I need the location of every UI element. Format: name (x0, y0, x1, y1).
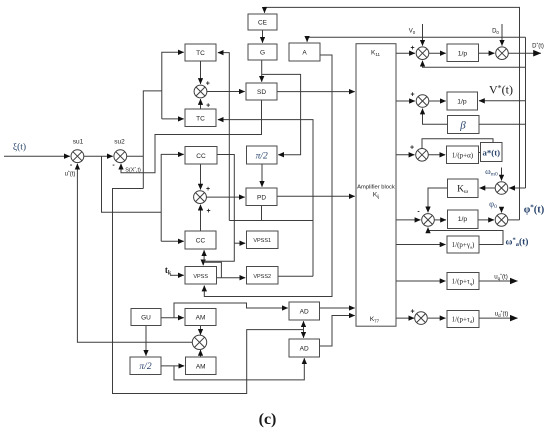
svg-text:ξ(t): ξ(t) (13, 142, 26, 153)
svg-text:S(X*,t): S(X*,t) (125, 165, 141, 173)
svg-text:+: + (410, 92, 414, 99)
svg-text:+: + (206, 208, 210, 215)
svg-text:AM: AM (196, 315, 206, 322)
svg-text:AD: AD (300, 346, 309, 353)
svg-text:su1: su1 (73, 139, 84, 146)
svg-text:AD: AD (300, 309, 309, 316)
svg-text:+: + (206, 186, 210, 193)
svg-text:TC: TC (196, 50, 205, 57)
svg-text:uq*(t): uq*(t) (494, 273, 508, 281)
svg-text:D0: D0 (492, 29, 499, 35)
svg-text:π/2: π/2 (139, 362, 151, 372)
svg-text:CC: CC (196, 238, 206, 245)
svg-text:CC: CC (196, 153, 206, 160)
svg-text:+: + (206, 103, 210, 110)
svg-text:φ*(t): φ*(t) (524, 204, 545, 216)
svg-text:β: β (459, 120, 466, 132)
svg-text:+: + (410, 145, 414, 152)
svg-text:TC: TC (196, 116, 205, 123)
svg-text:ud*(t): ud*(t) (495, 310, 509, 318)
svg-text:V0: V0 (409, 29, 416, 35)
svg-text:GU: GU (141, 315, 151, 322)
svg-text:(c): (c) (259, 411, 277, 428)
svg-text:VPSS2: VPSS2 (253, 274, 271, 280)
svg-text:u*(t): u*(t) (65, 170, 76, 178)
svg-text:Amplifier block: Amplifier block (357, 185, 395, 191)
svg-text:1/(p+τd): 1/(p+τd) (452, 316, 475, 324)
svg-text:+: + (410, 309, 414, 316)
svg-text:1/(p+τq): 1/(p+τq) (452, 278, 475, 286)
svg-text:a*(t): a*(t) (483, 147, 501, 157)
svg-text:su2: su2 (114, 139, 125, 146)
svg-text:PD: PD (257, 195, 266, 202)
svg-text:VPSS1: VPSS1 (253, 238, 271, 244)
svg-text:π/2: π/2 (256, 152, 268, 162)
svg-text:D*(t): D*(t) (532, 42, 544, 50)
svg-text:V*(t): V*(t) (489, 83, 513, 97)
svg-text:1/p: 1/p (458, 216, 468, 223)
svg-text:AM: AM (196, 364, 206, 371)
svg-text:CE: CE (258, 20, 268, 27)
svg-text:G: G (260, 50, 265, 57)
svg-text:1/p: 1/p (458, 50, 468, 57)
svg-text:1/(p+γa): 1/(p+γa) (452, 241, 475, 249)
svg-text:1/(p+α): 1/(p+α) (452, 151, 474, 159)
svg-text:A: A (302, 50, 307, 57)
svg-text:1/p: 1/p (457, 98, 467, 105)
svg-text:VPSS: VPSS (193, 274, 208, 280)
svg-text:SD: SD (257, 89, 266, 96)
svg-text:+: + (206, 81, 210, 88)
svg-text:+: + (410, 45, 414, 52)
